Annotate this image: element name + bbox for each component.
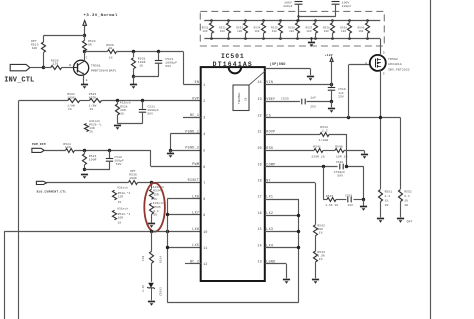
svg-text:1%: 1% — [153, 198, 157, 201]
resistor R542 39K — [314, 225, 318, 236]
array resistor 3 100 — [244, 19, 247, 22]
svg-text:103: 103 — [348, 204, 354, 207]
wire CS row — [265, 117, 401, 119]
array resistor 2 100 — [227, 19, 230, 22]
resistor R544 2.2 1/10W — [320, 133, 329, 137]
wire left rail 2 down — [4, 231, 6, 319]
ground R531 — [130, 85, 137, 89]
svg-text:100: 100 — [65, 146, 71, 149]
node C523 top — [157, 50, 160, 53]
svg-text:12R: 12R — [118, 196, 124, 199]
svg-text:220pF: 220pF — [342, 5, 352, 8]
svg-text:100: 100 — [272, 30, 277, 33]
wire left rail down — [18, 101, 20, 319]
svg-text:PGND_1: PGND_1 — [185, 130, 199, 134]
wire (SP)GND — [265, 68, 310, 70]
dashed box resistor array — [200, 11, 384, 46]
node C521 top — [141, 99, 144, 102]
wire ROVP row — [265, 134, 320, 136]
svg-text:OVP: OVP — [192, 98, 199, 102]
resistor R532-*1 12R (unconnected alt) — [113, 190, 117, 200]
resistor R546 10R — [335, 149, 344, 153]
node cap join — [297, 15, 299, 17]
svg-text:R539: R539 — [340, 26, 347, 29]
node ROVP tie — [345, 165, 348, 168]
svg-text:10: 10 — [203, 230, 207, 234]
wire far right vertical — [430, 0, 432, 319]
node R524 top — [83, 149, 86, 152]
svg-text:1%: 1% — [118, 201, 122, 204]
wire LX4 row — [265, 247, 299, 249]
svg-text:50V: 50V — [337, 175, 343, 178]
node source/CS junction — [379, 116, 382, 119]
wire OVP row — [19, 100, 68, 102]
svg-text:1W: 1W — [385, 204, 389, 207]
wire to ground — [133, 76, 135, 84]
svg-text:1uF: 1uF — [310, 97, 316, 100]
svg-text:1%: 1% — [120, 113, 124, 116]
wire ROVP elbow down — [346, 134, 348, 167]
svg-text:120K: 120K — [67, 96, 75, 99]
svg-text:1W: 1W — [109, 47, 113, 50]
wire VREF row — [265, 101, 300, 103]
svg-text:G: G — [365, 62, 367, 65]
svg-text:100V: 100V — [284, 1, 292, 4]
node R531 top — [132, 50, 135, 53]
wire C521 bottom to R528 bottom — [118, 123, 143, 125]
wire RSS row — [265, 150, 314, 152]
svg-text:1%: 1% — [89, 130, 93, 133]
node C519 bottom — [330, 100, 333, 103]
ground array — [311, 39, 313, 42]
resistor R523 0R — [84, 35, 86, 40]
resistor R533-*1 10R (unconnected alt) — [113, 210, 117, 220]
svg-text:16: 16 — [257, 211, 261, 215]
wire loop right down — [363, 167, 365, 200]
node LX7 — [166, 213, 169, 216]
capacitor C519 1uF 25V — [331, 84, 333, 87]
svg-text:25V: 25V — [338, 96, 344, 99]
svg-text:OPT: OPT — [407, 220, 413, 223]
svg-text:TR501: TR501 — [91, 65, 101, 68]
ground PGND — [170, 150, 172, 153]
svg-text:1/10W: 1/10W — [319, 138, 329, 142]
svg-text:R529-*L: R529-*L — [89, 122, 102, 126]
wire PWM_DIM row — [44, 150, 65, 152]
svg-text:A31nch: A31nch — [153, 201, 165, 205]
node gate tie — [347, 116, 350, 119]
svg-text:21: 21 — [257, 130, 261, 134]
svg-text:R540: R540 — [358, 26, 365, 29]
array resistor 8 100 — [331, 19, 334, 22]
svg-text:15R: 15R — [153, 194, 159, 197]
svg-text:1%: 1% — [139, 65, 143, 68]
wire C518 bottom — [85, 169, 110, 171]
wire LX bus vertical — [167, 199, 169, 303]
wire TR502 gate — [348, 65, 350, 118]
svg-text:R535: R535 — [271, 26, 278, 29]
svg-text:R514: R514 — [160, 256, 163, 263]
wire LX6 long row — [4, 231, 201, 233]
svg-text:1uF: 1uF — [338, 92, 344, 95]
svg-text:C526: C526 — [336, 161, 344, 164]
resistor R529-*L 13R (unconnected alt) — [85, 124, 89, 132]
svg-text:22: 22 — [257, 113, 261, 117]
net tag BLU_CURRENT_CTL — [36, 181, 46, 184]
svg-text:R533: R533 — [236, 26, 243, 29]
ground (SP)GND — [307, 77, 314, 81]
ground R535 — [148, 224, 155, 228]
svg-text:7: 7 — [203, 181, 205, 185]
svg-text:220pF: 220pF — [283, 5, 293, 8]
wire LGND row — [265, 263, 287, 265]
svg-text:LX5: LX5 — [192, 244, 199, 248]
resistor R524 100R — [84, 150, 86, 154]
svg-text:R531: R531 — [202, 26, 209, 29]
node RISET junction — [150, 181, 153, 184]
svg-text:BLU_CURRENT_CTL: BLU_CURRENT_CTL — [37, 191, 67, 194]
wire collector row — [85, 51, 108, 53]
svg-text:100K: 100K — [129, 177, 137, 180]
node LX column junction — [166, 230, 169, 233]
node R531 bottom — [132, 75, 135, 78]
svg-text:5: 5 — [203, 148, 205, 152]
svg-text:100: 100 — [237, 30, 242, 33]
capacitor C523 1000pF 50V — [158, 52, 160, 61]
svg-text:100: 100 — [306, 30, 311, 33]
svg-text:C529: C529 — [345, 194, 352, 197]
wire INV_CTL to node — [30, 67, 44, 69]
capacitor C529 103 — [347, 197, 349, 203]
svg-text:S: S — [383, 72, 385, 75]
svg-text:TR502: TR502 — [388, 58, 398, 61]
capacitor C518 100pF 50V — [109, 150, 111, 158]
svg-text:PWM: PWM — [192, 163, 199, 167]
svg-text:20R: 20R — [120, 109, 126, 112]
wire LX3 row — [265, 231, 299, 233]
wire pin11 LX5 — [167, 247, 200, 249]
resistor R521 100 — [66, 149, 75, 153]
array resistor 9 100 — [348, 19, 351, 22]
svg-text:1%: 1% — [404, 199, 408, 202]
svg-text:PGND_2: PGND_2 — [185, 147, 199, 151]
ground C519/C525 — [331, 101, 333, 107]
svg-text:100V: 100V — [342, 1, 350, 4]
svg-text:B: B — [69, 64, 71, 67]
wire to pin1 EN — [183, 52, 185, 85]
svg-text:LX7: LX7 — [192, 212, 199, 216]
svg-text:10K: 10K — [32, 47, 38, 50]
wire to R513 — [44, 35, 85, 37]
svg-text:1%: 1% — [109, 57, 113, 60]
wire PGND vertical — [170, 134, 172, 150]
pin 12 BC_2 stub — [185, 263, 201, 265]
svg-text:A31nch: A31nch — [89, 119, 100, 123]
resistor R545 1.5K — [327, 198, 336, 202]
svg-text:AO3401A: AO3401A — [388, 63, 402, 66]
svg-text:50V: 50V — [147, 113, 153, 116]
resistor R520 120 — [44, 67, 51, 69]
svg-text:50V: 50V — [165, 65, 171, 68]
svg-text:(SP)GND: (SP)GND — [270, 62, 286, 66]
ground R528/C521 — [114, 126, 121, 130]
svg-text:0.1: 0.1 — [404, 195, 410, 198]
node LX5 — [166, 246, 169, 249]
svg-text:1%: 1% — [68, 108, 72, 111]
svg-text:14: 14 — [257, 244, 261, 248]
svg-text:9.1: 9.1 — [153, 210, 159, 213]
node collector junction — [83, 50, 86, 53]
svg-text:C525: C525 — [281, 97, 289, 100]
svg-text:100: 100 — [358, 30, 363, 33]
svg-text:1: 1 — [203, 83, 205, 87]
svg-text:PWM_DIM: PWM_DIM — [32, 143, 46, 146]
power +3.3V_Normal — [83, 21, 87, 26]
wire PGND_2 pin5 — [170, 150, 200, 152]
node R514 top — [150, 230, 153, 233]
svg-text:E: E — [86, 79, 88, 82]
IC U501 DT1641AS body — [201, 67, 265, 281]
node VIN junction — [330, 83, 333, 86]
node base junction — [42, 66, 45, 69]
resistor R514 13R — [151, 231, 153, 251]
svg-text:24: 24 — [257, 80, 261, 84]
svg-text:R541: R541 — [313, 146, 321, 149]
ground R551 — [377, 219, 384, 223]
thermal pad box pin 25 — [233, 85, 249, 111]
wire LX2 row — [265, 215, 299, 217]
svg-text:ZD503: ZD503 — [160, 287, 163, 296]
node loop join — [362, 198, 365, 201]
svg-text:100: 100 — [289, 30, 294, 33]
pin 3 BC_1 stub — [183, 117, 201, 119]
resistor R551 0.1 1W — [379, 190, 383, 202]
resistor R530 100K (OPT) — [129, 181, 138, 185]
svg-text:R533-*1: R533-*1 — [118, 212, 131, 216]
array resistor 10 100 — [366, 19, 369, 22]
ground RSS — [364, 150, 366, 153]
svg-text:3: 3 — [203, 116, 205, 120]
svg-text:1%: 1% — [319, 258, 323, 261]
svg-text:15: 15 — [257, 227, 261, 231]
resistor R522 120K — [68, 99, 80, 103]
capacitor C527 220pF — [295, 1, 303, 3]
wire RISET row — [47, 182, 129, 184]
svg-text:C519: C519 — [338, 88, 346, 91]
transistor TR501 MMBT3904(BAP) — [74, 60, 89, 75]
svg-text:R535: R535 — [153, 206, 161, 209]
svg-text:0R: 0R — [88, 44, 92, 47]
svg-text:13: 13 — [257, 260, 261, 264]
resistor R525 675K — [90, 99, 102, 103]
svg-text:0.1: 0.1 — [385, 195, 391, 198]
svg-text:23: 23 — [257, 97, 261, 101]
svg-text:1%: 1% — [118, 222, 122, 225]
resistor R543 1.5K — [314, 251, 318, 262]
svg-text:11: 11 — [203, 246, 207, 250]
node shared ground junction — [83, 168, 86, 171]
ground LGND — [283, 280, 290, 284]
svg-text:1/8W: 1/8W — [89, 104, 97, 108]
svg-text:2: 2 — [203, 99, 205, 103]
svg-text:R552: R552 — [404, 190, 412, 193]
zener diode ZD503 3.3V — [148, 283, 154, 288]
wire LX1 row — [265, 199, 299, 201]
svg-text:R536: R536 — [288, 26, 295, 29]
resistor R531 100K — [133, 52, 135, 57]
highlight ellipse (red) — [144, 183, 165, 232]
resistor R526 1W — [108, 50, 117, 54]
svg-text:120: 120 — [53, 63, 59, 66]
svg-text:10R: 10R — [118, 217, 124, 220]
wire emitter — [83, 74, 85, 84]
wire array bottom rail — [204, 38, 380, 40]
ground loop — [363, 199, 365, 205]
wire pin8 LX8 — [167, 198, 200, 200]
svg-text:R532: R532 — [219, 26, 226, 29]
thermal pad diagonal — [249, 71, 265, 85]
node LX2 — [297, 214, 300, 217]
wire loop left down — [323, 167, 325, 200]
capacitor C525 1uF 25V — [301, 99, 303, 105]
svg-text:C: C — [86, 56, 88, 59]
svg-text:100: 100 — [254, 30, 259, 33]
node COMP loop — [322, 165, 325, 168]
wire COMP row — [265, 166, 338, 168]
svg-text:220R 1%: 220R 1% — [311, 156, 324, 159]
capacitor C521 1000pF 50V — [142, 101, 144, 109]
wire array top rail — [204, 20, 380, 22]
svg-text:8: 8 — [203, 197, 205, 201]
wire bottom bus — [167, 302, 298, 304]
wire VIN row — [265, 84, 332, 86]
node R528 top — [116, 99, 119, 102]
array resistor 6 100 — [296, 19, 299, 22]
svg-text:20: 20 — [257, 146, 261, 150]
svg-text:9: 9 — [203, 213, 205, 217]
svg-text:1%: 1% — [90, 108, 94, 111]
node PGND junction — [169, 149, 172, 152]
svg-text:1%: 1% — [319, 232, 323, 235]
svg-text:THERMAL: THERMAL — [238, 92, 241, 104]
svg-text:17: 17 — [257, 195, 261, 199]
svg-text:3BV_FBT2922: 3BV_FBT2922 — [388, 68, 410, 71]
svg-text:100: 100 — [341, 30, 346, 33]
wire cap join — [298, 16, 335, 18]
capacitor C526 4700pF 50V — [339, 164, 341, 170]
ground TR501 emitter — [81, 85, 88, 89]
resistor R528 20R — [117, 101, 119, 104]
svg-text:INV_CTL: INV_CTL — [4, 76, 34, 84]
svg-text:1W: 1W — [404, 204, 408, 207]
svg-text:A31nch: A31nch — [120, 100, 131, 104]
svg-text:R534: R534 — [153, 190, 161, 193]
svg-text:1.5K 1%: 1.5K 1% — [325, 204, 338, 207]
capacitor C530 220pF — [332, 1, 340, 3]
wire pin9 LX7 — [167, 214, 200, 216]
svg-text:R532-*1: R532-*1 — [118, 191, 131, 195]
svg-text:2.2: 2.2 — [322, 130, 328, 133]
svg-text:R528: R528 — [120, 105, 127, 108]
svg-text:R546: R546 — [335, 146, 343, 149]
array resistor 7 100 — [314, 19, 317, 22]
svg-text:100: 100 — [203, 30, 208, 33]
svg-text:R545: R545 — [326, 195, 333, 198]
node C518 top — [108, 149, 111, 152]
wire TR502 source — [380, 70, 382, 189]
transistor TR502 AO3401A — [370, 55, 386, 71]
svg-text:A31nch: A31nch — [117, 207, 128, 211]
ground R543 — [312, 280, 319, 284]
svg-text:R534: R534 — [254, 26, 261, 29]
wire elbow to pin6 PWM — [150, 150, 152, 166]
svg-text:18: 18 — [257, 179, 261, 183]
svg-text:19: 19 — [257, 163, 261, 167]
svg-text:IC501: IC501 — [221, 53, 245, 60]
ground ZD503 — [148, 302, 155, 306]
wire TR502 drain — [380, 39, 382, 56]
resistor R534 15R — [151, 182, 153, 188]
svg-text:D: D — [383, 52, 385, 55]
svg-text:R537: R537 — [306, 26, 313, 29]
svg-text:10R 1%: 10R 1% — [336, 156, 348, 159]
svg-text:25V: 25V — [310, 105, 316, 108]
svg-text:25: 25 — [244, 97, 247, 101]
svg-text:1%: 1% — [153, 214, 157, 217]
IC notch — [229, 67, 242, 73]
svg-text:EN: EN — [195, 81, 200, 85]
svg-text:MMBT3904(BAP): MMBT3904(BAP) — [91, 69, 117, 73]
svg-text:R551: R551 — [385, 190, 393, 193]
svg-text:3.3V: 3.3V — [142, 285, 145, 292]
array resistor 5 100 — [279, 19, 282, 22]
svg-text:100R: 100R — [89, 159, 97, 162]
svg-text:LX8: LX8 — [192, 195, 199, 199]
svg-text:+3.3V_Normal: +3.3V_Normal — [84, 13, 118, 18]
svg-text:A31nch: A31nch — [117, 185, 128, 189]
svg-text:675K: 675K — [89, 96, 97, 99]
svg-text:1%: 1% — [385, 199, 389, 202]
resistor R513 10K (OPT) — [43, 35, 45, 42]
resistor R541 220R — [314, 149, 323, 153]
resistor R535 9.1 — [150, 203, 154, 214]
net tag INV_CTL — [10, 64, 30, 70]
svg-text:6: 6 — [203, 165, 205, 169]
wire R552 branch — [400, 118, 402, 189]
ground R552 — [397, 219, 404, 223]
svg-text:DT1641AS: DT1641AS — [213, 61, 253, 68]
node LX3 — [297, 230, 300, 233]
resistor R552 0.1 1W (OPT) — [399, 190, 403, 202]
svg-text:RISET: RISET — [188, 179, 200, 183]
svg-text:4: 4 — [203, 132, 205, 136]
svg-text:50V: 50V — [116, 163, 122, 166]
svg-text:LX6: LX6 — [192, 228, 199, 232]
svg-text:13R: 13R — [142, 255, 145, 261]
wire collector — [84, 52, 86, 62]
wire PGND_1 pin4 — [170, 133, 200, 135]
svg-text:100: 100 — [324, 30, 329, 33]
node +3.3V junction — [83, 34, 86, 37]
wire NT row — [265, 182, 315, 184]
wire C523 bottom to R531 bottom — [134, 76, 159, 78]
ground R524/C518 — [81, 175, 88, 179]
array resistor 1 100 — [210, 19, 213, 22]
svg-text:12: 12 — [203, 262, 207, 266]
node LX4 — [297, 246, 300, 249]
svg-text:1/8W: 1/8W — [67, 104, 75, 108]
array resistor 4 100 — [262, 19, 265, 22]
